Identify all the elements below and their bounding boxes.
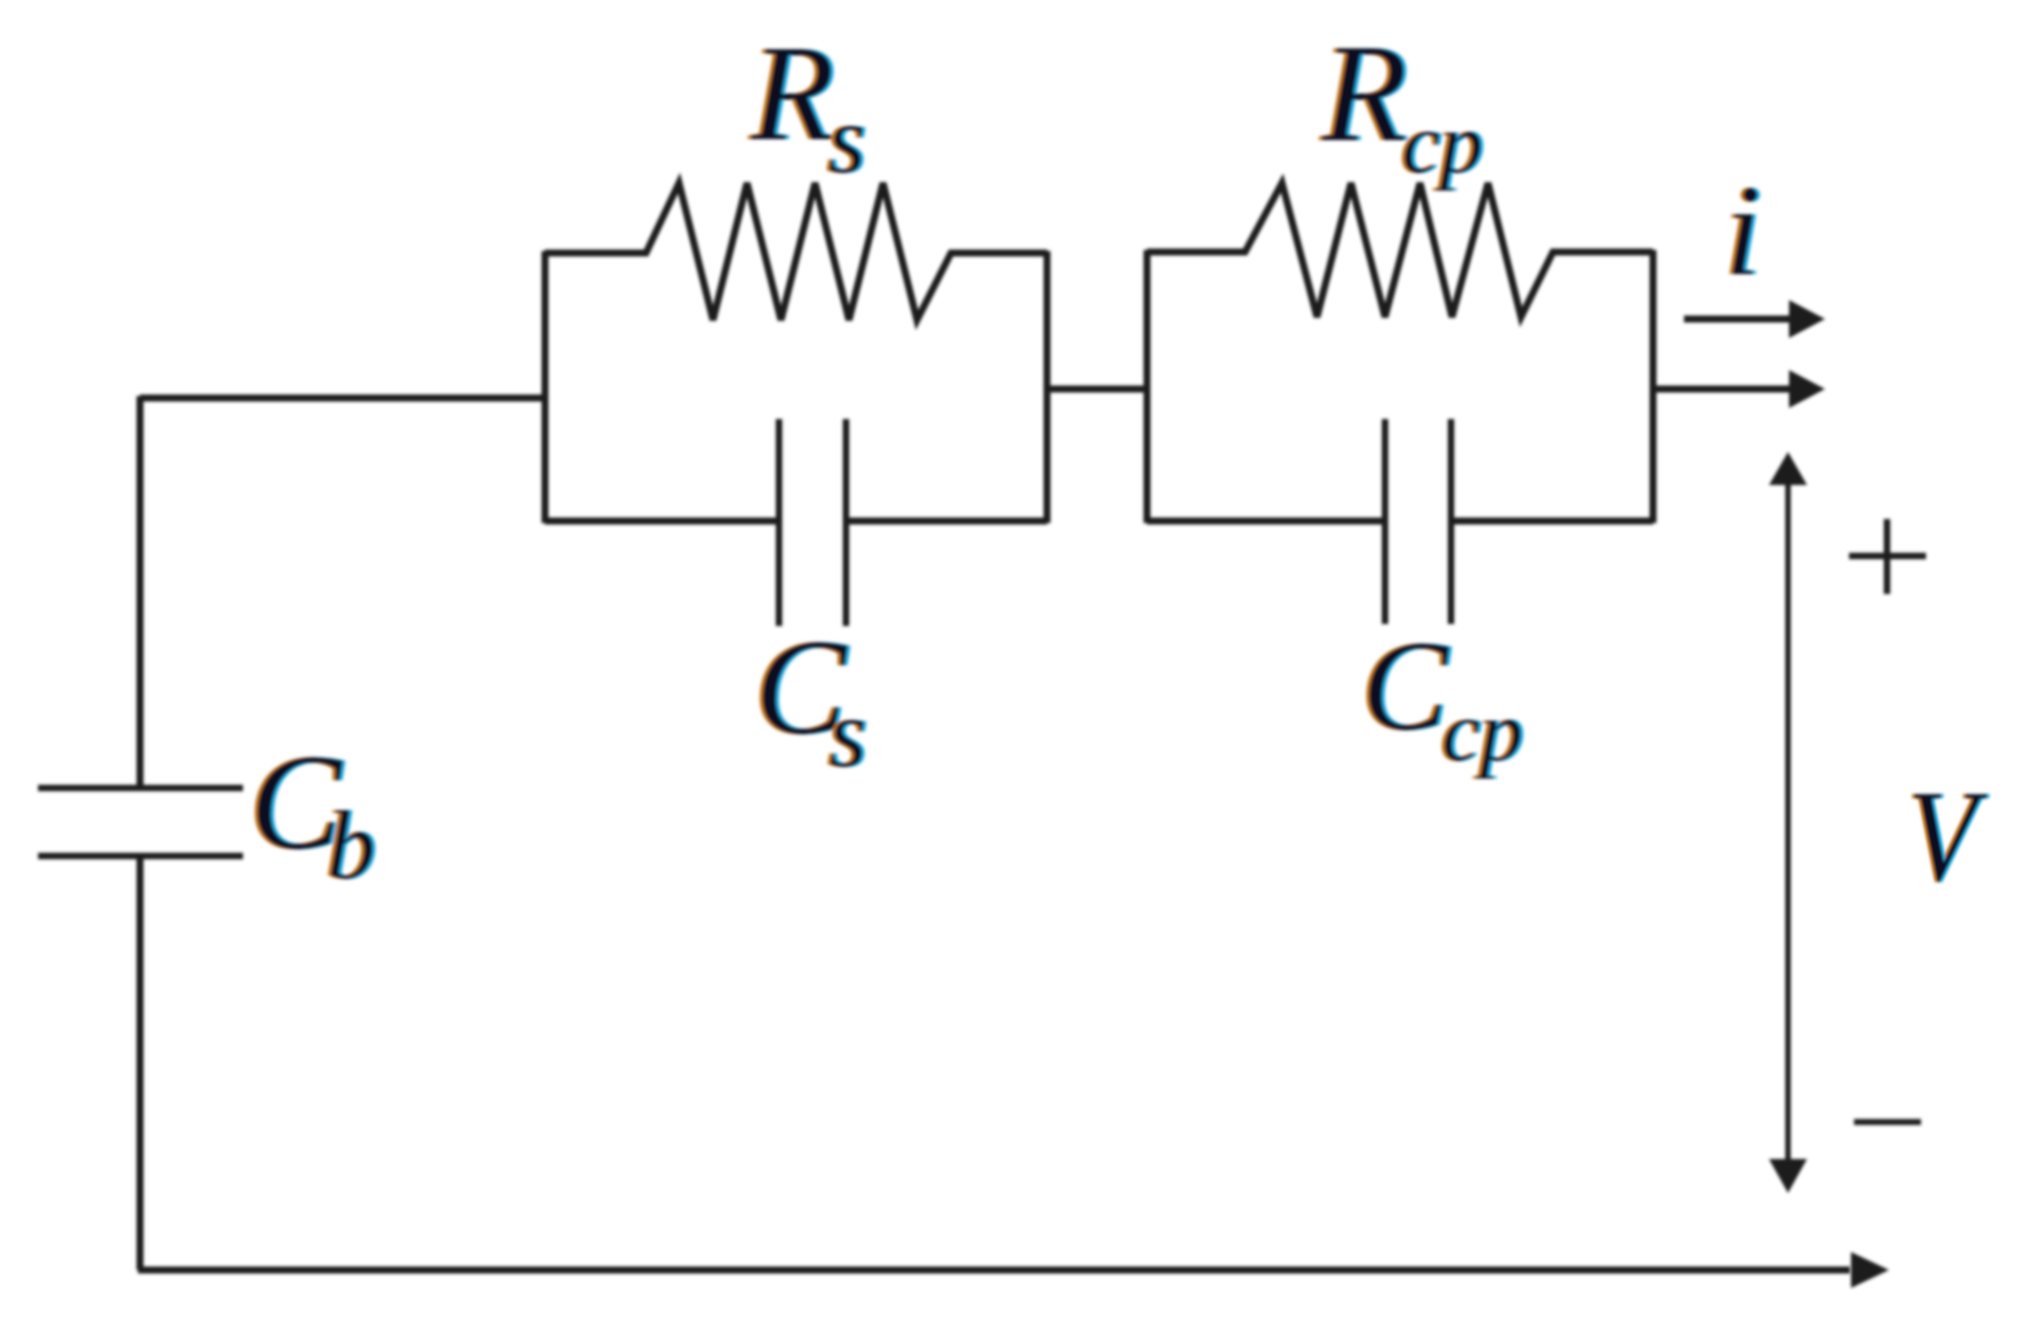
wire: right edge of Rcp/Ccp block	[1650, 250, 1657, 523]
wire: top-left horizontal from node to Rs/Cs block	[140, 395, 545, 402]
svg-text:s: s	[828, 86, 866, 193]
plus sign	[1849, 519, 1926, 594]
wire: left edge of Rcp/Ccp block	[1144, 250, 1151, 523]
wire: left edge of Rs/Cs block	[542, 251, 549, 523]
arrowhead of current arrow i	[1789, 300, 1825, 338]
resistor Rcp zigzag on top edge of second parallel block	[1147, 183, 1653, 317]
wire: left vertical upper segment down to Cb top plate	[137, 396, 144, 788]
svg-text:cp: cp	[1402, 95, 1483, 191]
label Cs	[752, 611, 870, 787]
label i (current)	[1722, 159, 1764, 303]
svg-text:R: R	[1321, 16, 1408, 171]
label Rs	[747, 17, 869, 193]
capacitor Ccp plates	[1385, 419, 1451, 624]
wire: bottom edge left segment of Rs/Cs block	[545, 518, 779, 525]
arrowhead of output lead	[1789, 370, 1825, 408]
arrowhead of bottom rail	[1851, 1252, 1889, 1288]
voltage measurement double arrow shaft	[1785, 478, 1791, 1170]
svg-text:b: b	[327, 792, 376, 899]
label Rcp	[1318, 16, 1486, 191]
svg-text:C: C	[1362, 614, 1450, 757]
wire: bottom edge right segment of Rs/Cs block	[846, 518, 1047, 525]
capacitor Cb plates	[38, 788, 243, 856]
label V (voltage)	[1905, 764, 1990, 909]
wire: connection between the two parallel blocks	[1047, 386, 1147, 393]
wire: left vertical lower segment from Cb bottom plate to bottom rail	[137, 856, 144, 1270]
wire: bottom edge right segment of Rcp/Ccp block	[1451, 518, 1653, 525]
label Ccp	[1359, 614, 1526, 779]
wire: right edge of Rs/Cs block	[1044, 251, 1051, 523]
capacitor Cs plates	[779, 419, 846, 626]
svg-text:s: s	[829, 680, 867, 787]
label Cb	[247, 726, 379, 899]
svg-text:i: i	[1725, 159, 1761, 303]
svg-text:cp: cp	[1442, 683, 1523, 779]
wire: bottom edge left segment of Rcp/Ccp block	[1147, 518, 1385, 525]
current arrow i shaft	[1684, 316, 1796, 323]
arrowhead top of voltage arrow	[1769, 452, 1807, 485]
resistor Rs zigzag on top edge of first parallel block	[545, 183, 1047, 320]
wire: output lead from right edge of Rcp/Ccp block	[1653, 386, 1796, 393]
arrowhead bottom of voltage arrow	[1769, 1159, 1807, 1193]
minus sign	[1854, 1119, 1921, 1125]
wire: bottom rail with arrow	[138, 1267, 1850, 1274]
svg-text:R: R	[750, 17, 835, 169]
svg-text:V: V	[1908, 764, 1988, 909]
